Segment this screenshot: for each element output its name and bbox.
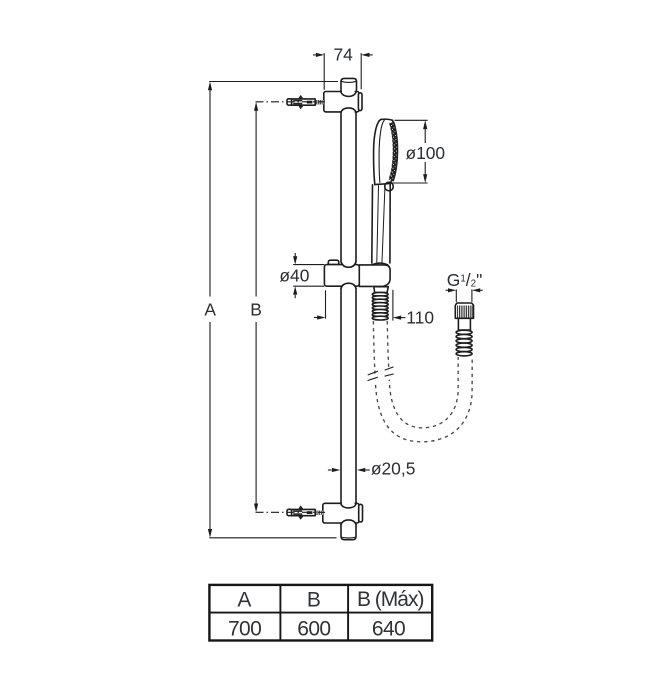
rail joint arc below top cap [341,92,356,96]
dimension A [204,82,338,538]
svg-text:A: A [237,589,251,612]
hang ring on head [385,182,394,191]
svg-text:A: A [204,300,216,320]
hose end connector knurled nut [455,303,473,318]
hose end connector neck [458,318,470,330]
svg-text:B: B [307,589,321,612]
handle end cap arc in holder [372,263,388,265]
rail lower segment [341,288,356,504]
hose protector corrugation [372,292,388,320]
bottom wall bracket body [323,502,363,524]
top wall bracket end cap [358,93,362,111]
rail upper segment [341,112,356,262]
wall anchor screw top [287,95,324,109]
svg-text:ø40: ø40 [279,266,309,286]
hose conical joint below holder [374,287,388,293]
svg-text:ø100: ø100 [405,143,445,163]
wall anchor screw bottom [287,505,323,519]
svg-text:ø20,5: ø20,5 [371,459,415,479]
flexible hose dashed left edge [373,321,472,442]
rail joint arc above slider [341,262,356,268]
spec table [209,585,432,641]
dimension 110 [393,290,434,328]
bottom wall bracket end cap [359,504,363,522]
svg-text:B (Máx): B (Máx) [357,588,424,611]
svg-text:640: 640 [372,618,405,641]
dimension B [250,102,262,512]
svg-text:B: B [250,300,262,320]
shower head spray face texture [389,123,396,181]
svg-text:74: 74 [334,45,354,65]
centerline dash-dot bottom [256,511,326,513]
flexible hose dashed right edge [387,321,458,428]
rail bottom stub [341,524,356,539]
rail joint arc at bottom bracket top [341,504,356,508]
handle grip [372,184,390,263]
dimension diameter 40 [279,253,324,298]
hose end connector corrugation [456,330,472,356]
svg-text:110: 110 [406,308,434,328]
B max reference arrow at slider [314,290,326,319]
dimension G half inch [446,270,483,302]
hose break symbol [366,367,397,386]
rail joint arc at top bracket bottom [341,108,356,112]
svg-text:600: 600 [297,618,330,641]
rail joint arc below slider [341,283,356,288]
rail top cap [341,78,357,92]
slider main body [324,260,390,288]
dimension 74 [313,45,373,90]
shower head outline [374,119,397,184]
slider handle holder [359,265,390,287]
dimension diameter 20,5 [328,459,415,479]
dimension diameter 100 [392,120,446,183]
centerline dash-dot top [256,101,326,103]
rail joint arc at bottom bracket bottom [341,520,356,524]
svg-text:700: 700 [228,618,261,641]
top wall bracket body [324,90,362,113]
